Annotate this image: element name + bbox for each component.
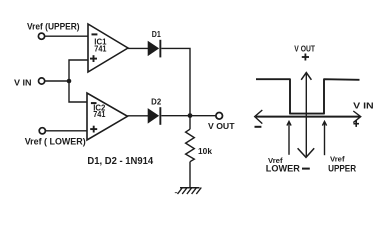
graph label Vref UPPER: [328, 156, 356, 173]
svg-text:Vref ( LOWER): Vref ( LOWER): [25, 135, 86, 146]
wire V IN to junction: [45, 80, 69, 82]
graph small arrow Vref UPPER: [322, 121, 326, 155]
terminal Vref UPPER: [38, 33, 44, 39]
node V IN junction: [67, 79, 72, 84]
graph V OUT axis double arrow: [298, 73, 315, 158]
svg-text:D1, D2 - 1N914: D1, D2 - 1N914: [87, 156, 153, 167]
terminal V OUT: [216, 113, 223, 120]
svg-text:LOWER: LOWER: [266, 164, 301, 174]
terminal Vref LOWER: [39, 128, 45, 134]
wire D1 to output node: [161, 48, 190, 115]
svg-text:V OUT: V OUT: [294, 44, 315, 53]
wire IC1 output to D1: [128, 47, 149, 49]
ground: [175, 188, 202, 195]
svg-text:741: 741: [94, 45, 107, 54]
diode D2: [148, 98, 162, 125]
wire Vref UPPER to IC1 inverting input: [45, 35, 88, 37]
resistor R 10k: [186, 116, 213, 188]
graph transfer curve: [256, 79, 360, 113]
op-amp IC2: [87, 93, 128, 140]
terminal V IN: [39, 78, 45, 84]
svg-text:D2: D2: [151, 98, 162, 107]
wire vertical branch: [69, 60, 88, 102]
wire junction to V OUT terminal: [190, 115, 216, 117]
wire D2 to output node: [161, 115, 190, 117]
svg-text:Vref: Vref: [330, 156, 345, 163]
svg-text:10k: 10k: [198, 147, 212, 156]
svg-text:V OUT: V OUT: [208, 122, 235, 131]
graph label Vref LOWER: [266, 158, 310, 174]
svg-text:741: 741: [93, 110, 106, 119]
diode D1: [148, 30, 161, 57]
graph small arrow Vref LOWER: [287, 121, 291, 154]
wire IC2 output to D2: [128, 115, 149, 117]
op-amp IC1: [88, 24, 128, 72]
graph plus above V OUT axis: [302, 54, 309, 61]
graph x axis V IN: [255, 110, 361, 124]
svg-text:V IN: V IN: [14, 77, 32, 87]
graph plus right of axis: [353, 121, 359, 127]
graph minus left of axis: [255, 126, 262, 128]
wire Vref LOWER to IC2 non-inverting input: [46, 130, 87, 132]
svg-text:Vref (UPPER): Vref (UPPER): [27, 20, 80, 31]
node output junction: [188, 113, 193, 118]
svg-text:UPPER: UPPER: [328, 164, 356, 174]
svg-text:V IN: V IN: [353, 100, 374, 110]
svg-text:D1: D1: [152, 30, 162, 39]
